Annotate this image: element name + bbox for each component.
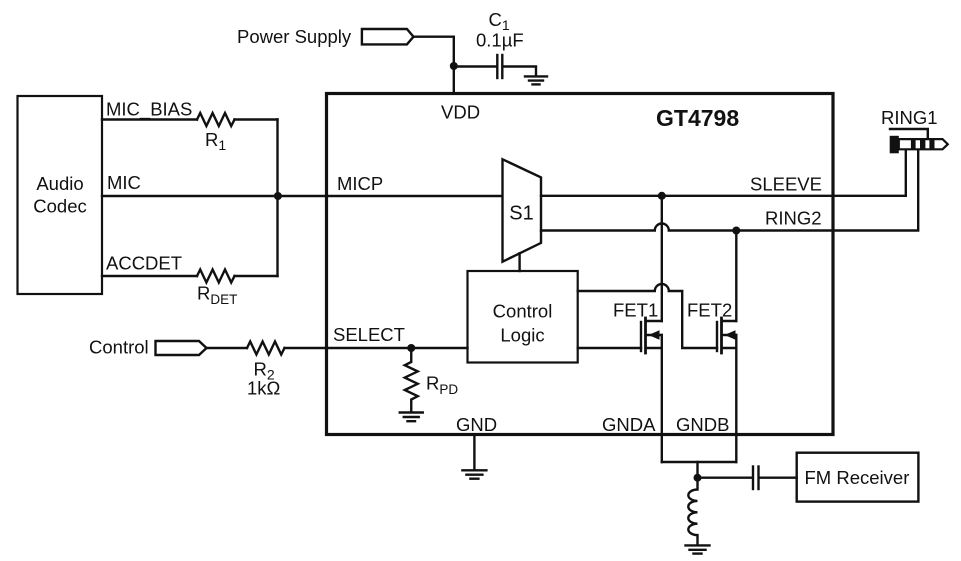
svg-text:GT4798: GT4798 bbox=[656, 105, 739, 131]
wire SLEEVE bbox=[541, 150, 906, 196]
svg-text:S1: S1 bbox=[509, 203, 533, 225]
wire junction to C1 bbox=[454, 65, 496, 67]
svg-text:FET1: FET1 bbox=[613, 300, 658, 321]
wire cap to FM receiver bbox=[760, 477, 797, 479]
mux S1 bbox=[503, 159, 542, 261]
wire FET1 source to GNDA bbox=[661, 335, 663, 462]
svg-text:SLEEVE: SLEEVE bbox=[750, 174, 822, 195]
wire vertical bias/accdet bbox=[276, 120, 278, 277]
wire GND pin bbox=[473, 435, 475, 470]
junction dot SELECT bbox=[407, 344, 415, 352]
resistor R1 bbox=[197, 113, 235, 126]
wire S1 to control logic bbox=[518, 253, 520, 271]
svg-text:ACCDET: ACCDET bbox=[106, 253, 182, 274]
svg-text:SELECT: SELECT bbox=[333, 324, 405, 345]
junction dot FM tap bbox=[694, 474, 702, 482]
jack plug RING1 bbox=[890, 136, 948, 154]
ground for C1 bbox=[525, 75, 547, 77]
wire control to R2 bbox=[207, 347, 248, 349]
ground for GND pin bbox=[462, 469, 486, 471]
wire R1 to corner bbox=[235, 118, 278, 120]
junction dot power/C1 bbox=[450, 62, 458, 70]
transistor FET2 bbox=[717, 318, 736, 353]
transistor FET1 bbox=[641, 318, 662, 353]
svg-text:0.1µF: 0.1µF bbox=[476, 30, 524, 51]
coupling capacitor bbox=[752, 467, 754, 490]
svg-text:Control: Control bbox=[89, 337, 149, 358]
wire power supply to VDD bbox=[414, 37, 454, 94]
svg-text:MIC_BIAS: MIC_BIAS bbox=[106, 99, 192, 121]
svg-text:GND: GND bbox=[456, 414, 497, 435]
svg-text:MIC: MIC bbox=[107, 172, 141, 193]
junction dot SLEEVE tap bbox=[658, 192, 666, 200]
capacitor C1 bbox=[496, 55, 498, 78]
ground for inductor bbox=[686, 544, 710, 546]
wire C1 to ground bbox=[504, 67, 537, 76]
wire sleeve tap down to FET1 drain bbox=[661, 196, 663, 321]
svg-text:Control: Control bbox=[493, 301, 553, 322]
wire tap to coupling cap bbox=[698, 477, 752, 479]
svg-text:RING1: RING1 bbox=[881, 107, 938, 128]
wire ring2 tap down to FET2 drain bbox=[735, 231, 737, 322]
wire ACCDET bbox=[102, 275, 197, 277]
wire FET2 source to GNDB bbox=[735, 335, 737, 462]
svg-text:MICP: MICP bbox=[337, 173, 383, 194]
wire joining GNDA GNDB bbox=[662, 461, 737, 463]
control logic box bbox=[468, 271, 578, 363]
Audio Codec box bbox=[18, 96, 103, 294]
wire R2 to control logic bbox=[285, 347, 468, 349]
svg-text:FM Receiver: FM Receiver bbox=[805, 467, 910, 488]
resistor RDET bbox=[197, 270, 235, 283]
svg-text:GNDB: GNDB bbox=[676, 414, 729, 435]
svg-text:Power Supply: Power Supply bbox=[237, 26, 352, 47]
wire RING2 with hop bbox=[541, 150, 918, 230]
wire RDET to corner bbox=[235, 275, 278, 277]
junction dot RING2 tap bbox=[732, 227, 740, 235]
svg-text:Codec: Codec bbox=[33, 196, 86, 217]
resistor R2 bbox=[247, 342, 285, 355]
svg-text:1kΩ: 1kΩ bbox=[247, 378, 281, 399]
svg-text:RING2: RING2 bbox=[765, 208, 822, 229]
inductor L1 bbox=[688, 478, 697, 545]
wire MIC_BIAS bbox=[102, 118, 197, 120]
resistor RPD bbox=[405, 348, 418, 412]
wire MIC to S1 bbox=[102, 195, 503, 197]
power supply tag bbox=[362, 29, 414, 44]
chip GT4798 outline bbox=[327, 94, 834, 435]
svg-text:GNDA: GNDA bbox=[602, 414, 656, 435]
wire control logic to FET1 gate bbox=[578, 347, 641, 349]
svg-text:FET2: FET2 bbox=[687, 300, 732, 321]
svg-text:Logic: Logic bbox=[500, 325, 544, 346]
FM Receiver box bbox=[797, 453, 919, 502]
wire join to tap bbox=[696, 462, 698, 478]
jack leader line bbox=[890, 129, 928, 139]
ground for RPD bbox=[400, 411, 423, 413]
junction dot MIC bbox=[274, 192, 282, 200]
svg-text:VDD: VDD bbox=[441, 102, 480, 123]
control tag bbox=[156, 341, 207, 355]
svg-text:Audio: Audio bbox=[36, 173, 83, 194]
wire control logic to FET2 gate with hop bbox=[578, 284, 717, 348]
